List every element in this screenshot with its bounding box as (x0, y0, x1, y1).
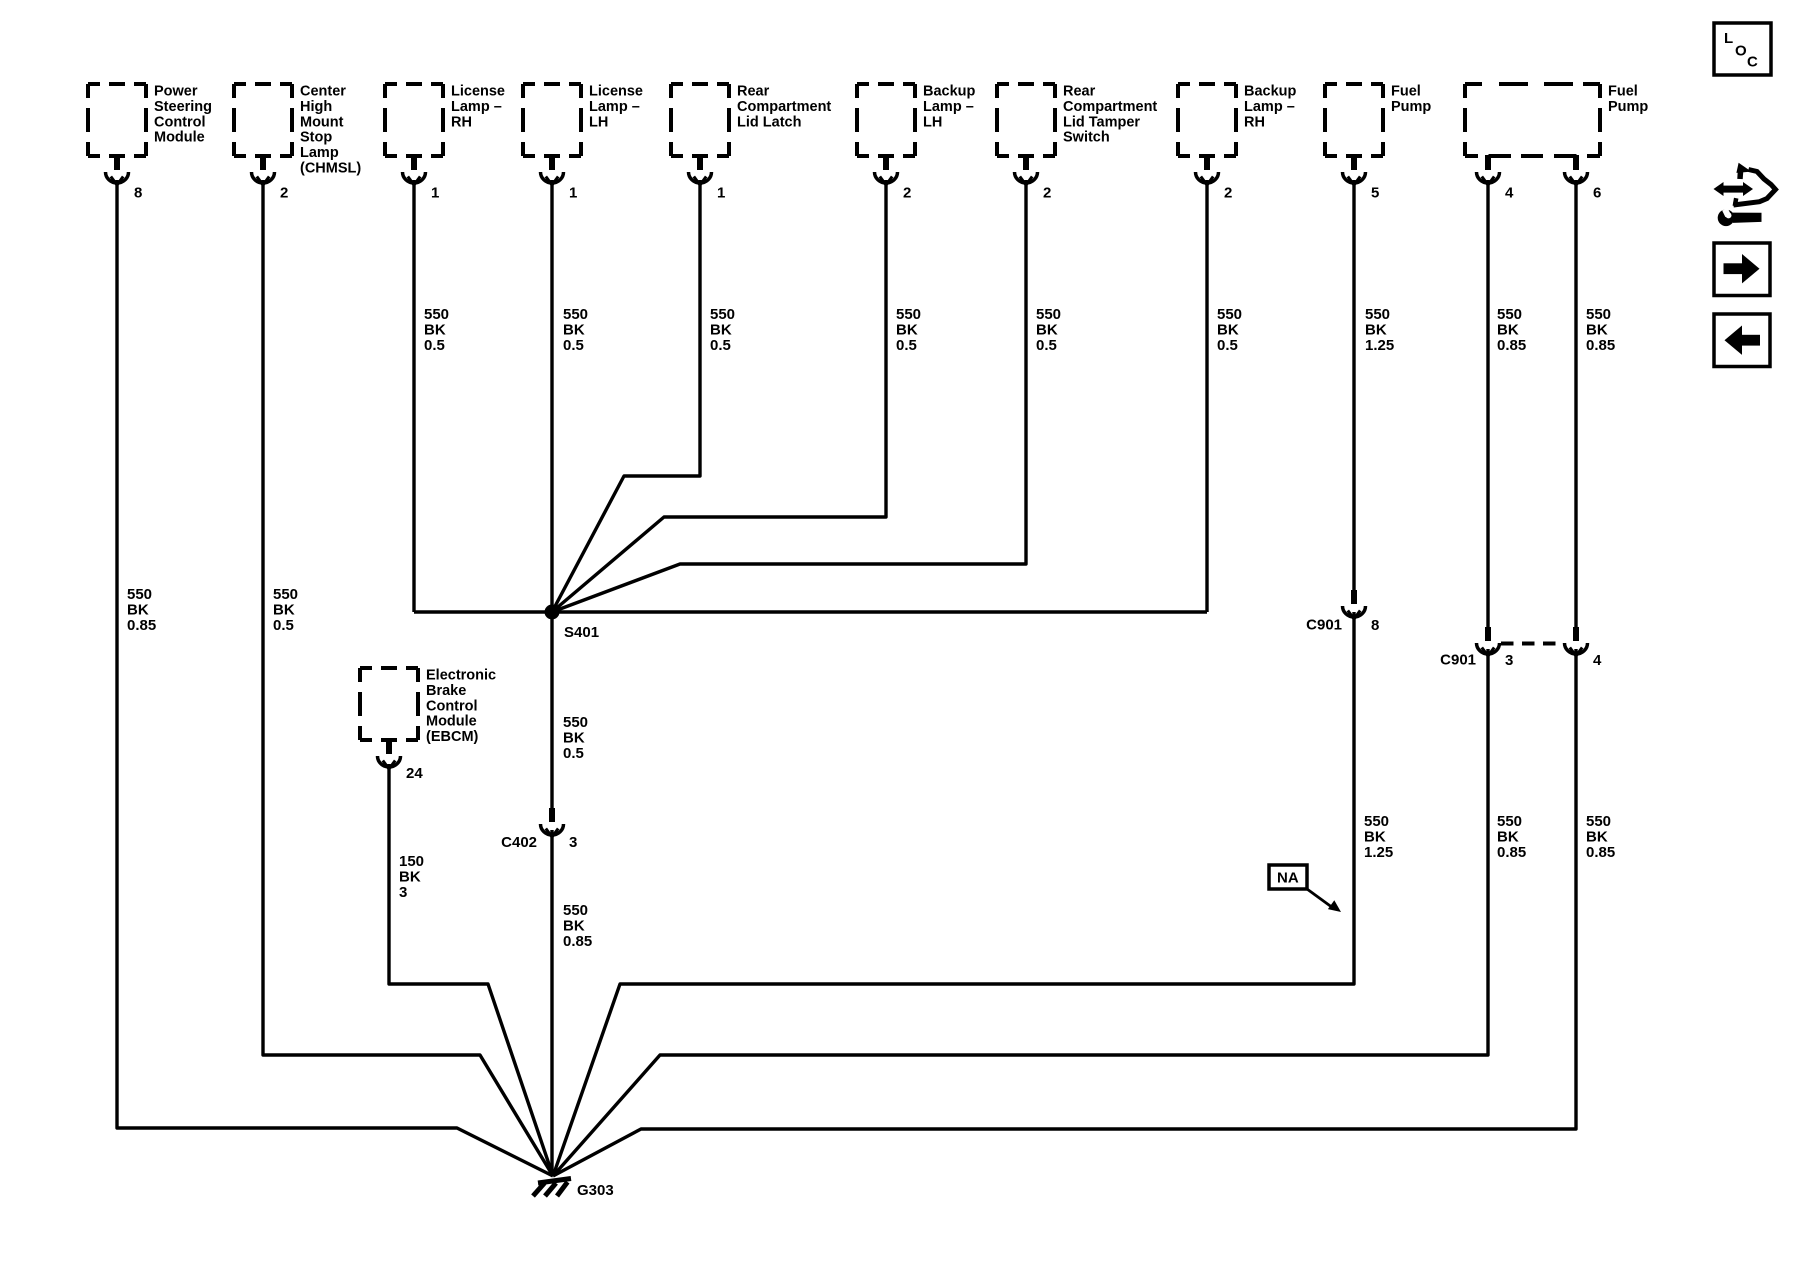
forward arrow box (1714, 243, 1770, 296)
svg-text:License: License (451, 84, 505, 100)
pin 8, Power Steering Control Module (134, 185, 142, 202)
svg-text:550: 550 (1036, 306, 1061, 323)
connector C402 (541, 808, 564, 837)
svg-text:Center: Center (300, 84, 346, 100)
svg-text:Pump: Pump (1608, 99, 1648, 115)
svg-text:8: 8 (1371, 617, 1379, 634)
svg-text:Control: Control (154, 114, 206, 130)
svg-text:550: 550 (1364, 813, 1389, 830)
svg-text:Compartment: Compartment (737, 99, 831, 115)
svg-text:Lamp –: Lamp – (923, 99, 974, 115)
svg-text:BK: BK (1217, 322, 1239, 339)
svg-text:Backup: Backup (1244, 84, 1297, 100)
svg-text:1.25: 1.25 (1364, 844, 1393, 861)
pin 1, License Lamp LH (569, 185, 577, 202)
svg-text:C901: C901 (1440, 652, 1476, 669)
svg-text:License: License (589, 84, 643, 100)
ground G303 symbol (533, 1179, 571, 1197)
pin 24, EBCM (406, 765, 423, 782)
component box: Rear Compartment Lid Tamper Switch (997, 84, 1157, 157)
svg-text:550: 550 (1217, 306, 1242, 323)
svg-text:550: 550 (896, 306, 921, 323)
pin 2, Backup Lamp RH (1224, 185, 1232, 202)
svg-text:Switch: Switch (1063, 130, 1110, 146)
label G303 (577, 1182, 614, 1199)
wire 550 BK 0.5, Lid Tamper Switch to S401 (552, 180, 1026, 612)
svg-text:Electronic: Electronic (426, 668, 496, 684)
svg-text:Pump: Pump (1391, 99, 1431, 115)
svg-text:BK: BK (710, 322, 732, 339)
wire 550 BK 0.5, S401 to C402 (550, 612, 553, 808)
svg-text:BK: BK (1497, 829, 1519, 846)
wire 550 BK 0.5, License Lamp RH to S401 (412, 180, 415, 612)
component box: CHMSL (234, 84, 361, 177)
svg-text:Mount: Mount (300, 114, 344, 130)
svg-text:BK: BK (424, 322, 446, 339)
wire 550 BK 0.85, C402 to G303 (550, 830, 553, 1176)
wire 550 BK 0.85, Fuel Pump pin 6 to C901 (1574, 180, 1577, 627)
pin 8, C901 (1371, 617, 1379, 634)
svg-text:550: 550 (1586, 306, 1611, 323)
pin 2, CHMSL (280, 185, 288, 202)
svg-text:BK: BK (1586, 322, 1608, 339)
svg-text:0.85: 0.85 (1586, 337, 1615, 354)
component box: Backup Lamp LH (857, 84, 976, 157)
wire label 550 BK 1.25 (upper) (1365, 306, 1394, 354)
connector terminal, Backup Lamp RH (1196, 155, 1219, 185)
connector terminal, EBCM (378, 739, 401, 769)
svg-text:Compartment: Compartment (1063, 99, 1157, 115)
svg-text:Backup: Backup (923, 84, 976, 100)
component box: Fuel Pump (1325, 84, 1431, 157)
wire label 550 BK 0.85 (C402 to G303) (563, 902, 592, 950)
svg-text:BK: BK (1497, 322, 1519, 339)
svg-text:6: 6 (1593, 185, 1601, 202)
wire 550 BK 1.25, C901 to G303 (553, 612, 1354, 1176)
svg-text:BK: BK (127, 602, 149, 619)
svg-text:3: 3 (1505, 652, 1513, 669)
wire label 550 BK 0.5 (Tamper column) (1036, 306, 1061, 354)
pin 1, License Lamp RH (431, 185, 439, 202)
wire 550 BK 0.5, CHMSL to G303 (263, 180, 553, 1176)
wire label 550 BK 0.5 (Lid Latch column) (710, 306, 735, 354)
svg-text:RH: RH (1244, 114, 1265, 130)
svg-text:2: 2 (1224, 185, 1232, 202)
svg-text:Lamp: Lamp (300, 145, 339, 161)
svg-text:C901: C901 (1306, 617, 1342, 634)
svg-text:BK: BK (563, 918, 585, 935)
svg-text:Fuel: Fuel (1608, 84, 1638, 100)
svg-text:1: 1 (717, 185, 725, 202)
svg-text:Module: Module (426, 714, 477, 730)
svg-text:150: 150 (399, 853, 424, 870)
svg-text:Lamp –: Lamp – (589, 99, 640, 115)
wire label 550 BK 0.5 (Backup RH column) (1217, 306, 1242, 354)
svg-text:Rear: Rear (737, 84, 770, 100)
component box: Fuel Pump (wide) (1465, 84, 1648, 157)
svg-text:0.85: 0.85 (1497, 337, 1526, 354)
svg-text:0.5: 0.5 (710, 337, 731, 354)
svg-text:2: 2 (903, 185, 911, 202)
svg-text:550: 550 (424, 306, 449, 323)
back arrow box (1714, 314, 1770, 367)
svg-text:Lamp –: Lamp – (1244, 99, 1295, 115)
pin 3, C402 (569, 834, 577, 851)
svg-text:BK: BK (896, 322, 918, 339)
svg-text:0.85: 0.85 (127, 617, 156, 634)
wire label 550 BK 0.85 (pin 4 lower) (1497, 813, 1526, 861)
connector terminal, Power Steering Control Module (106, 155, 129, 185)
svg-text:BK: BK (399, 869, 421, 886)
wire 550 BK 1.25, Fuel Pump pin 5 to C901 (1352, 180, 1355, 590)
LOC reference box (1714, 23, 1771, 75)
wire label 550 BK 0.5 (S401 to C402) (563, 714, 588, 762)
connector terminal, Rear Compartment Lid Latch (689, 155, 712, 185)
connector C901 pin 3 (1477, 627, 1500, 656)
svg-text:BK: BK (1365, 322, 1387, 339)
component box: Power Steering Control Module (88, 84, 212, 157)
connector terminal pin 4, Fuel Pump (1477, 155, 1500, 185)
wire label 550 BK 0.85 (left column) (127, 586, 156, 634)
svg-text:1.25: 1.25 (1365, 337, 1394, 354)
svg-text:Fuel: Fuel (1391, 84, 1421, 100)
svg-text:BK: BK (1586, 829, 1608, 846)
wire label 550 BK 0.85 (pin 6 lower) (1586, 813, 1615, 861)
svg-text:0.5: 0.5 (1036, 337, 1057, 354)
connector terminal, License Lamp RH (403, 155, 426, 185)
wire 550 BK 0.85, Fuel Pump pin 4 to C901 (1486, 180, 1489, 627)
svg-text:NA: NA (1277, 870, 1299, 887)
svg-text:Steering: Steering (154, 99, 212, 115)
dashed tie line between C901 halves (1501, 642, 1564, 646)
svg-text:3: 3 (569, 834, 577, 851)
label C901 (pins 3/4) (1440, 652, 1476, 669)
svg-text:24: 24 (406, 765, 423, 782)
svg-text:2: 2 (280, 185, 288, 202)
svg-text:Lamp –: Lamp – (451, 99, 502, 115)
component box: Rear Compartment Lid Latch (671, 84, 831, 157)
connector terminal pin 6, Fuel Pump (1565, 155, 1588, 185)
pin 2, Rear Compartment Lid Tamper Switch (1043, 185, 1051, 202)
connector terminal, Fuel Pump (1343, 155, 1366, 185)
svg-text:0.85: 0.85 (1586, 844, 1615, 861)
svg-text:Brake: Brake (426, 683, 466, 699)
svg-text:0.5: 0.5 (563, 337, 584, 354)
svg-text:0.85: 0.85 (1497, 844, 1526, 861)
wire, S401 bus horizontal (414, 610, 1207, 613)
svg-text:High: High (300, 99, 332, 115)
svg-text:LH: LH (589, 114, 608, 130)
label S401 (564, 624, 599, 641)
svg-text:C: C (1747, 54, 1758, 71)
svg-text:Module: Module (154, 130, 205, 146)
svg-text:LH: LH (923, 114, 942, 130)
svg-text:0.5: 0.5 (563, 745, 584, 762)
wire 550 BK 0.85, Power Steering Control Module to G303 (117, 180, 553, 1176)
svg-text:4: 4 (1593, 652, 1602, 669)
svg-text:S401: S401 (564, 624, 599, 641)
wire 550 BK 0.5, Backup Lamp RH to S401 (1205, 180, 1208, 612)
pin 2, Backup Lamp LH (903, 185, 911, 202)
connector terminal, Rear Compartment Lid Tamper Switch (1015, 155, 1038, 185)
wire 550 BK 0.5, Backup Lamp LH to S401 (552, 180, 886, 612)
wire 550 BK 0.85, C901 pin 4 to G303 (553, 649, 1576, 1176)
wire 550 BK 0.5, Rear Compartment Lid Latch to S401 (552, 180, 700, 612)
svg-text:4: 4 (1505, 185, 1514, 202)
wire label 550 BK 0.5 (License RH column) (424, 306, 449, 354)
svg-text:Lid Tamper: Lid Tamper (1063, 114, 1140, 130)
component box: Electronic Brake Control Module (EBCM) (360, 668, 496, 746)
connector terminal, CHMSL (252, 155, 275, 185)
connector C901 pin 8 (1343, 590, 1366, 619)
splice S401 (545, 605, 560, 620)
svg-text:0.85: 0.85 (563, 933, 592, 950)
label C402 (501, 834, 537, 851)
svg-text:550: 550 (1365, 306, 1390, 323)
svg-text:550: 550 (563, 902, 588, 919)
svg-text:1: 1 (431, 185, 439, 202)
pin 4, C901 (1593, 652, 1602, 669)
svg-text:550: 550 (273, 586, 298, 603)
svg-text:Power: Power (154, 84, 198, 100)
svg-text:550: 550 (710, 306, 735, 323)
pin 6, Fuel Pump (1593, 185, 1601, 202)
svg-text:O: O (1735, 43, 1747, 60)
wire 150 BK 3, EBCM to G303 (389, 764, 553, 1176)
connector terminal, Backup Lamp LH (875, 155, 898, 185)
wire label 550 BK 0.85 (pin 4 upper) (1497, 306, 1526, 354)
pin 3, C901 (1505, 652, 1513, 669)
svg-text:550: 550 (1497, 813, 1522, 830)
label C901 (pin 8) (1306, 617, 1342, 634)
svg-text:G303: G303 (577, 1182, 614, 1199)
wire 550 BK 0.5, License Lamp LH to S401 (550, 180, 553, 612)
svg-text:C402: C402 (501, 834, 537, 851)
svg-text:BK: BK (1364, 829, 1386, 846)
svg-text:5: 5 (1371, 185, 1379, 202)
svg-text:550: 550 (1586, 813, 1611, 830)
svg-text:RH: RH (451, 114, 472, 130)
pin 1, Rear Compartment Lid Latch (717, 185, 725, 202)
svg-text:0.5: 0.5 (896, 337, 917, 354)
svg-text:(EBCM): (EBCM) (426, 729, 479, 745)
wire label 550 BK 0.5 (CHMSL column) (273, 586, 298, 634)
pin 4, Fuel Pump (1505, 185, 1514, 202)
wire 550 BK 0.85, C901 pin 3 to G303 (553, 649, 1488, 1176)
svg-text:550: 550 (1497, 306, 1522, 323)
svg-text:550: 550 (563, 306, 588, 323)
component box: License Lamp LH (523, 84, 643, 157)
connector C901 pin 4 (1565, 627, 1588, 656)
connector terminal, License Lamp LH (541, 155, 564, 185)
wire label 550 BK 0.5 (License LH column) (563, 306, 588, 354)
svg-text:0.5: 0.5 (424, 337, 445, 354)
svg-text:550: 550 (127, 586, 152, 603)
svg-text:0.5: 0.5 (1217, 337, 1238, 354)
wire label 550 BK 0.85 (pin 6 upper) (1586, 306, 1615, 354)
svg-text:550: 550 (563, 714, 588, 731)
svg-text:8: 8 (134, 185, 142, 202)
svg-text:3: 3 (399, 884, 407, 901)
svg-text:L: L (1724, 30, 1733, 47)
svg-text:BK: BK (1036, 322, 1058, 339)
service icon (double arrow, panel outline, wrench) (1714, 163, 1776, 226)
note box NA (1269, 865, 1341, 912)
component box: Backup Lamp RH (1178, 84, 1297, 157)
wire label 550 BK 0.5 (Backup LH column) (896, 306, 921, 354)
svg-text:Control: Control (426, 698, 478, 714)
svg-text:BK: BK (563, 730, 585, 747)
svg-text:0.5: 0.5 (273, 617, 294, 634)
svg-text:2: 2 (1043, 185, 1051, 202)
svg-text:BK: BK (273, 602, 295, 619)
wire label 550 BK 1.25 (lower) (1364, 813, 1393, 861)
svg-text:Rear: Rear (1063, 84, 1096, 100)
svg-text:Stop: Stop (300, 130, 332, 146)
svg-text:1: 1 (569, 185, 577, 202)
wire label 150 BK 3 (399, 853, 424, 901)
pin 5, Fuel Pump (1371, 185, 1379, 202)
component box: License Lamp RH (385, 84, 505, 157)
svg-text:BK: BK (563, 322, 585, 339)
svg-text:(CHMSL): (CHMSL) (300, 161, 361, 177)
svg-text:Lid Latch: Lid Latch (737, 114, 801, 130)
